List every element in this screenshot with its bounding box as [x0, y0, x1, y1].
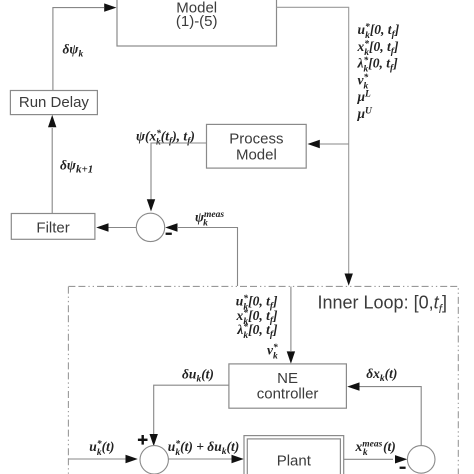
wire summing junction 1 to Filter [96, 223, 136, 231]
inner loop dashed boundary [68, 286, 458, 474]
block Process Model [207, 124, 307, 168]
wire trunk into NE controller top [287, 287, 295, 364]
wire feedback from summing junction 3 up into NE controller right [347, 382, 421, 445]
svg-text:Filter: Filter [36, 219, 69, 236]
wire psi meas from inner loop up into summing junction 1 [165, 223, 237, 286]
minus sign at summing junction 1 [166, 233, 172, 235]
block Plant (double border) [244, 436, 344, 474]
block Model (1)-(5) [117, 0, 277, 46]
wire from right trunk into Process Model right [308, 140, 349, 148]
labels inner signals [236, 293, 279, 362]
wire from Run Delay up into Model left [53, 3, 117, 90]
svg-text:Model: Model [236, 146, 277, 163]
block Run Delay [10, 91, 97, 115]
wire NE controller left, down into summing junction 2 [150, 385, 229, 446]
minus sign at summing junction 3 [400, 467, 406, 469]
wire from Model right to right trunk, down to inner loop [277, 7, 353, 286]
wire Plant to summing junction 3 [344, 455, 408, 463]
labels right column signals [357, 22, 400, 121]
plus sign at summing junction 2 [138, 435, 148, 445]
svg-text:(1)-(5): (1)-(5) [176, 13, 218, 30]
svg-text:Inner Loop: [0,tf]: Inner Loop: [0,tf] [318, 292, 447, 316]
wire from Process Model left, down into summing junction 1 [147, 143, 207, 212]
summing junction 1 [136, 213, 164, 241]
block NE controller [229, 364, 347, 408]
svg-text:Run Delay: Run Delay [19, 94, 90, 111]
summing junction 3 [407, 446, 435, 474]
svg-text:Plant: Plant [277, 453, 312, 470]
wire input u*k into summing junction 2 [68, 455, 137, 463]
svg-text:controller: controller [257, 385, 319, 402]
summing junction 2 [140, 446, 168, 474]
wire from Filter up into Run Delay [48, 115, 56, 214]
svg-text:Process: Process [229, 130, 283, 147]
wire summing junction 2 to Plant [168, 455, 243, 463]
block Filter [11, 214, 95, 240]
